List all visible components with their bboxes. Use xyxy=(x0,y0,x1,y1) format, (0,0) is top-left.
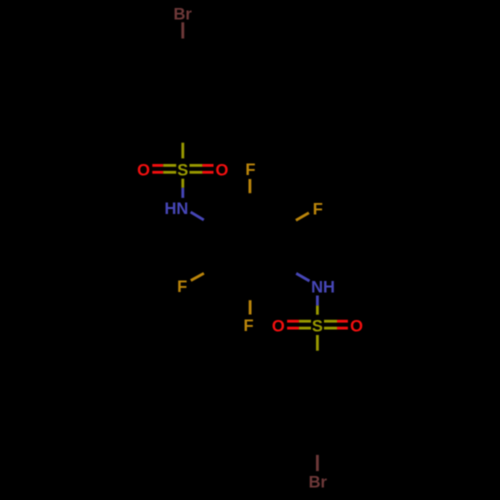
bond S1-N1 (N half blue) xyxy=(181,188,184,198)
bond Br1-C1 (Br half, vertical stub) xyxy=(181,22,184,38)
svg-text:F: F xyxy=(313,200,323,218)
svg-text:F: F xyxy=(245,161,255,179)
bond F4-C (F half, vertical stub) xyxy=(249,300,252,314)
bond Br2-C4 ring3 (Br half, vertical stub) xyxy=(316,455,319,471)
double bond O1=S1 (O half red, S half olive) line 1 xyxy=(152,164,163,167)
svg-text:O: O xyxy=(137,161,150,179)
bond N2-S2 (S half olive) xyxy=(316,306,319,315)
svg-text:F: F xyxy=(244,317,254,335)
svg-text:F: F xyxy=(177,278,187,296)
svg-text:Br: Br xyxy=(174,5,193,23)
bond S2-C1 ring3 (S half, vertical stub below S) xyxy=(316,335,319,351)
double bond S1=O2 line 2 xyxy=(190,171,203,174)
double bond O3=S2 line 2 xyxy=(287,327,299,330)
bond N2-C(ring2) (N half blue stub) xyxy=(296,273,309,281)
double bond O3=S2 (O half red, S half olive) line 1 xyxy=(287,320,299,323)
bond N2-S2 (N half blue) xyxy=(316,296,319,306)
bond S1-N1 (S half olive) xyxy=(181,179,184,188)
double bond O1=S1 line 2 xyxy=(152,171,163,174)
double bond S1=O2 (S half olive, O half red) line 1 xyxy=(190,164,203,167)
bond F1-C (F half, vertical stub) xyxy=(248,179,251,193)
svg-text:Br: Br xyxy=(309,473,328,491)
bond N1-C(ring2) (N half blue stub) xyxy=(191,212,204,220)
central tetrafluorobenzene ring (carbon bonds, invisible black) xyxy=(225,218,275,275)
double bond S2=O4 line 2 xyxy=(324,327,337,330)
svg-text:O: O xyxy=(350,317,363,335)
svg-text:S: S xyxy=(312,317,323,335)
double bond S2=O4 (S half olive, O half red) line 1 xyxy=(324,320,337,323)
svg-text:O: O xyxy=(272,317,285,335)
svg-text:S: S xyxy=(177,161,188,179)
bond S1-C4 ring1 (S half, vertical stub above S) xyxy=(181,143,184,159)
benzene ring 3 (carbon bonds, invisible black) xyxy=(295,377,340,429)
svg-text:O: O xyxy=(215,161,228,179)
svg-text:HN: HN xyxy=(164,200,188,218)
svg-text:NH: NH xyxy=(311,279,335,297)
bond F3-C (F half, diagonal stub) xyxy=(191,273,204,280)
bond F2-C (F half, diagonal stub) xyxy=(296,213,309,221)
benzene ring 1 (carbon bonds, invisible black) xyxy=(160,65,205,117)
